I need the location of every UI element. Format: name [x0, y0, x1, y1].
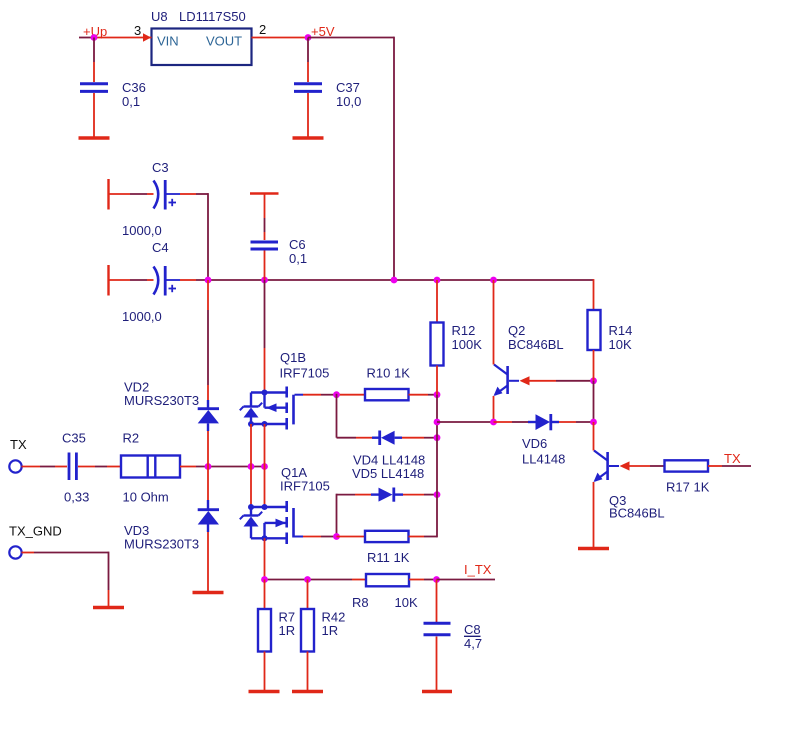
wire R12 to R10 node [436, 366, 438, 395]
C4 value 1000,0 [122, 309, 162, 324]
node C8 junction dot [433, 576, 440, 583]
wire R10 node to resistor [337, 394, 366, 396]
node R10 left junction dot [333, 391, 340, 398]
net label +Up [83, 24, 107, 39]
wire R2 node down to Q1A [251, 467, 265, 508]
svg-text:TX: TX [724, 451, 741, 466]
svg-text:VOUT: VOUT [206, 34, 242, 49]
wire I_TX row [265, 579, 367, 581]
svg-text:10,0: 10,0 [336, 94, 361, 109]
svg-text:100K: 100K [452, 337, 483, 352]
svg-text:4,7: 4,7 [464, 636, 482, 651]
C6 reference label [289, 237, 306, 252]
R12 value 100K [452, 337, 483, 352]
wire C8 node down to C8 [436, 580, 438, 623]
diode VD3 [198, 500, 219, 532]
wire R42 to ground [307, 652, 309, 691]
node bus junction dots [205, 277, 497, 284]
wire VD5 row left [337, 494, 372, 496]
wire Q2 emitter node to VD6 [494, 421, 529, 423]
terminal TX_GND [9, 524, 62, 559]
wire node down to R7 [264, 580, 266, 610]
wire Q1A gate to R11 node [295, 536, 337, 538]
wire tick to C3 [109, 193, 154, 195]
wire Q1A source down to I_TX row [264, 538, 266, 579]
svg-text:R8: R8 [352, 595, 369, 610]
ground under TX_GND [93, 606, 124, 609]
U8 pin name VIN [157, 34, 179, 49]
wire node to VD3 [207, 467, 209, 501]
svg-text:10K: 10K [395, 595, 418, 610]
C6 value 0,1 [289, 251, 307, 266]
R2 value 10 Ohm [123, 490, 169, 505]
capacitor C8 [424, 623, 451, 635]
VD6 value LL4148 [522, 452, 565, 467]
wire R10 to R12 column [409, 394, 438, 396]
wire C4 to bus [180, 279, 196, 281]
svg-text:IRF7105: IRF7105 [280, 366, 330, 381]
wire VD6 to Q3 collector node [559, 421, 594, 423]
R11 reference and value label [367, 550, 410, 565]
net label I_TX [464, 562, 492, 577]
net label +5V [311, 24, 335, 39]
svg-text:MURS230T3: MURS230T3 [124, 393, 199, 408]
svg-text:C6: C6 [289, 237, 306, 252]
Q2 reference label [508, 323, 525, 338]
svg-text:BC846BL: BC846BL [609, 506, 665, 521]
U8 pin number 2 [259, 22, 266, 37]
diode VD5 [371, 488, 403, 502]
node Q2 base junction dot [590, 377, 597, 384]
wire Q1B gate to R10 node [295, 394, 337, 396]
svg-text:Q2: Q2 [508, 323, 525, 338]
capacitor C6 [251, 242, 279, 249]
svg-text:10K: 10K [609, 337, 632, 352]
wire VD3 to ground [207, 532, 209, 591]
R14 reference label [609, 323, 633, 338]
wire VD2 to R2 node [207, 431, 209, 467]
R7 value 1R [279, 623, 296, 638]
svg-text:VIN: VIN [157, 34, 179, 49]
Q3 value BC846BL [609, 506, 665, 521]
C4 reference label [152, 240, 169, 255]
R17 reference and value label [666, 480, 710, 495]
Q1B body zener diode [240, 403, 262, 418]
VD3 value MURS230T3 [124, 537, 199, 552]
wire C6 to bus [264, 251, 266, 281]
svg-text:R2: R2 [123, 431, 140, 446]
svg-text:LL4148: LL4148 [522, 452, 565, 467]
node R11 left junction dot [333, 533, 340, 540]
Q1B reference label [280, 350, 306, 365]
VD3 reference label [124, 523, 149, 538]
C3 reference label [152, 160, 169, 175]
resistor R11 [365, 531, 409, 542]
svg-text:I_TX: I_TX [464, 562, 492, 577]
svg-text:C4: C4 [152, 240, 169, 255]
Q1A body zener diode [240, 512, 262, 527]
wire VD5 to R12 column [403, 494, 437, 496]
resistor R2 [121, 456, 180, 478]
node VD5 right junction dot [434, 491, 441, 498]
Q1A terminal dots [248, 504, 268, 541]
resistor R14 [588, 310, 601, 350]
Q1A value IRF7105 [280, 479, 330, 494]
svg-text:MURS230T3: MURS230T3 [124, 537, 199, 552]
U8 value LD1117S50 [179, 9, 246, 24]
wire R14 to Q2 base node [593, 350, 595, 381]
ground under R42 [292, 690, 323, 693]
wire VD6 node down to Q3 collector [593, 422, 595, 451]
wire C3 to corner down to bus [180, 193, 208, 280]
node I_TX row junction dots [261, 576, 311, 583]
wire tick to C6 [264, 194, 266, 240]
Q1A reference label [281, 465, 307, 480]
svg-text:1R: 1R [279, 623, 296, 638]
resistor R8 [366, 574, 409, 586]
resistor R42 [301, 609, 314, 652]
power bus wire +5V horizontal [196, 279, 594, 281]
R8 reference label [352, 595, 369, 610]
svg-text:R10 1K: R10 1K [367, 366, 411, 381]
wire VD4 row left [337, 437, 373, 439]
C4 wire end tick [107, 265, 109, 296]
transistor Q3 npn [594, 451, 620, 483]
capacitor C37 [294, 84, 322, 92]
net label TX output [724, 451, 741, 466]
voltage regulator U8 box [152, 29, 252, 66]
node Q2 emitter junction dot [490, 419, 497, 426]
C6 wire end tick [250, 192, 279, 194]
node corner to VD6 junction dot [434, 419, 441, 426]
svg-text:C3: C3 [152, 160, 169, 175]
node VD4 right junction dot [434, 434, 441, 441]
diode VD6 [528, 414, 559, 430]
svg-text:TX_GND: TX_GND [9, 524, 62, 539]
R14 value 10K [609, 337, 632, 352]
resistor R10 [365, 389, 409, 400]
R7 reference label [279, 610, 296, 625]
wire R17 to TX output [708, 465, 751, 467]
svg-text:R11 1K: R11 1K [367, 550, 410, 565]
R10 reference and value label [367, 366, 411, 381]
svg-text:VD6: VD6 [522, 436, 547, 451]
node +Up junction dot [91, 34, 98, 41]
wire R2 to node [180, 466, 265, 468]
transistor Q1A n-channel mosfet [251, 501, 294, 544]
capacitor C35 [69, 453, 76, 481]
C3 wire end tick [107, 179, 109, 210]
svg-text:3: 3 [134, 23, 141, 38]
VD4 value label [353, 453, 425, 468]
resistor R12 [431, 323, 444, 366]
svg-text:Q1B: Q1B [280, 350, 306, 365]
svg-text:2: 2 [259, 22, 266, 37]
wire bus corner down to R14 [593, 279, 595, 310]
wire VD4 to R12 column [402, 437, 437, 439]
svg-text:TX: TX [10, 437, 27, 452]
ground under VD3 [193, 591, 224, 594]
wire node down to R42 [307, 580, 309, 610]
polarized capacitor C3 [154, 180, 181, 210]
wire stub left of +Up node [79, 37, 94, 39]
C8 reference label underlined [464, 622, 481, 637]
wire R12 column R10 node to VD4 node [436, 395, 438, 438]
Q3 base input arrow [620, 461, 630, 470]
wire C37 to ground [307, 93, 309, 137]
C8 value 4,7 [464, 636, 482, 651]
wire +5V down to C37 [307, 38, 309, 83]
svg-text:C37: C37 [336, 80, 360, 95]
wire +Up node to U8 pin 3 [94, 37, 152, 39]
wire bus down to Q1B drain [264, 280, 266, 392]
svg-text:1000,0: 1000,0 [122, 309, 162, 324]
resistor R17 [665, 460, 709, 471]
wire R7 to ground [264, 652, 266, 691]
ground under Q3 emitter [578, 547, 609, 550]
wire VD5 left corner down to R11 node [336, 494, 338, 537]
R42 value 1R [322, 623, 339, 638]
ground under C8 [422, 690, 452, 693]
R2 reference label [123, 431, 140, 446]
wire +Up down to C36 [93, 38, 95, 83]
wire Q3 emitter to ground [593, 482, 595, 547]
Q1B value IRF7105 [280, 366, 330, 381]
wire Q2 emitter down to VD6 row [493, 396, 495, 422]
svg-text:C35: C35 [62, 431, 86, 446]
Q3 reference label [609, 493, 626, 508]
diode VD2 [198, 400, 219, 431]
U8 VIN input arrow [143, 33, 151, 41]
Q1B terminal dots [248, 390, 268, 428]
VD6 reference label [522, 436, 547, 451]
R8 value 10K [395, 595, 418, 610]
svg-text:R14: R14 [609, 323, 633, 338]
C3 value 1000,0 [122, 223, 162, 238]
svg-text:0,1: 0,1 [289, 251, 307, 266]
svg-text:C36: C36 [122, 80, 146, 95]
C37 reference label [336, 80, 360, 95]
wire U8 VOUT to +5V node [252, 37, 309, 39]
wire Q2 base node down to VD6 node [593, 381, 595, 422]
wire R8 to C8 node [409, 579, 437, 581]
svg-text:LD1117S50: LD1117S50 [179, 9, 246, 24]
wire Q2 base to R14 column [530, 380, 594, 382]
wire VD4 node to VD5 node [436, 438, 438, 495]
svg-text:1R: 1R [322, 623, 339, 638]
wire VD6 row from R12 column [437, 421, 494, 423]
svg-text:C8: C8 [464, 622, 481, 637]
ground under C36 [79, 136, 110, 139]
Q2 base input arrow [520, 376, 530, 385]
C36 value 0,1 [122, 94, 140, 109]
node R2 output junction dots [205, 463, 268, 470]
wire bus down to R12 [436, 280, 438, 323]
capacitor C36 [80, 84, 108, 92]
Q2 value BC846BL [508, 337, 564, 352]
U8 pin name VOUT [206, 34, 242, 49]
wire TX to C35 [22, 466, 68, 468]
VD2 reference label [124, 380, 149, 395]
node R10 right junction dot [434, 391, 441, 398]
resistor R7 [258, 609, 271, 652]
node VD6 right junction dot [590, 419, 597, 426]
svg-text:1000,0: 1000,0 [122, 223, 162, 238]
wire +5V right and down to bus [308, 37, 394, 280]
transistor Q2 npn [494, 365, 520, 397]
wire C8 to ground [436, 637, 438, 691]
terminal TX [9, 437, 27, 473]
wire Q1B source and body to R2 node [251, 424, 265, 467]
wire Q3 base to R17 [630, 465, 665, 467]
R42 reference label [322, 610, 346, 625]
transistor Q1B p-channel mosfet [251, 387, 294, 430]
node +5V junction dot [305, 34, 312, 41]
U8 reference label [151, 9, 168, 24]
wire bus down to Q2 collector [493, 280, 495, 365]
C37 value 10,0 [336, 94, 361, 109]
wire C36 to ground [93, 93, 95, 137]
C35 value 0,33 [64, 490, 89, 505]
wire VD2 column from bus [207, 280, 209, 400]
wire tick to C4 [109, 279, 154, 281]
wire TX_GND to ground [22, 552, 109, 606]
wire R11 node to resistor [337, 536, 366, 538]
wire R10 node down to VD4 [336, 394, 338, 438]
diode VD4 [372, 431, 402, 446]
svg-text:U8: U8 [151, 9, 168, 24]
svg-text:0,33: 0,33 [64, 490, 89, 505]
svg-text:10 Ohm: 10 Ohm [123, 490, 169, 505]
svg-text:0,1: 0,1 [122, 94, 140, 109]
VD2 value MURS230T3 [124, 393, 199, 408]
C36 reference label [122, 80, 146, 95]
C35 reference label [62, 431, 86, 446]
svg-text:IRF7105: IRF7105 [280, 479, 330, 494]
R12 reference label [452, 323, 476, 338]
svg-text:VD5 LL4148: VD5 LL4148 [352, 466, 424, 481]
wire R11 right corner up to VD5 row [409, 495, 438, 538]
svg-text:R12: R12 [452, 323, 476, 338]
svg-text:BC846BL: BC846BL [508, 337, 564, 352]
U8 pin number 3 [134, 23, 141, 38]
ground under C37 [293, 136, 324, 139]
ground under R7 [249, 690, 280, 693]
svg-text:R17 1K: R17 1K [666, 480, 710, 495]
VD5 value label [352, 466, 424, 481]
wire I_TX stub [437, 579, 496, 581]
wire C35 to R2 [78, 466, 121, 468]
polarized capacitor C4 [154, 266, 181, 296]
